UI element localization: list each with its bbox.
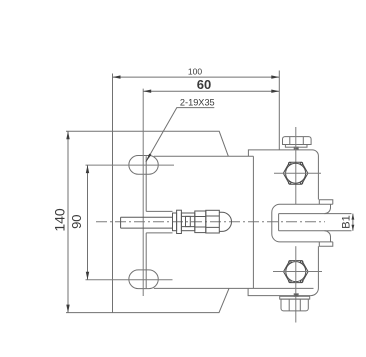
svg-text:90: 90 [69, 214, 84, 228]
svg-text:60: 60 [197, 77, 211, 92]
svg-text:2-19X35: 2-19X35 [180, 98, 215, 108]
svg-text:B1: B1 [340, 215, 352, 228]
svg-text:140: 140 [52, 208, 68, 232]
svg-text:100: 100 [188, 67, 202, 77]
